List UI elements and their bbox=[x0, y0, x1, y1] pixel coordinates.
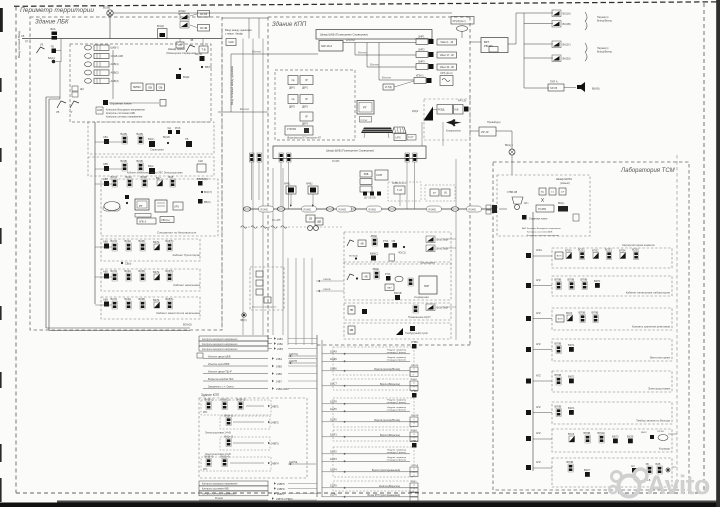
svg-text:RS485: RS485 bbox=[369, 208, 377, 211]
svg-text:IP: IP bbox=[305, 115, 308, 119]
svg-text:НВ: НВ bbox=[350, 310, 354, 312]
svg-text:ВП9В: ВП9В bbox=[584, 431, 591, 435]
svg-text:ВП9В: ВП9В bbox=[555, 373, 562, 377]
svg-text:1ШС7: 1ШС7 bbox=[330, 383, 337, 386]
svg-text:АВ7: АВ7 bbox=[103, 177, 108, 181]
svg-text:Контроль выходного напряжения: Контроль выходного напряжения bbox=[202, 339, 238, 341]
svg-text:ВМ07: ВМ07 bbox=[641, 432, 647, 434]
svg-text:Кабинет начальника лаборатории: Кабинет начальника лаборатории bbox=[626, 291, 671, 295]
svg-text:ВОЛ: ВОЛ bbox=[557, 256, 562, 258]
svg-text:УПВ2: УПВ2 bbox=[411, 439, 418, 443]
svg-text:РПА: РПА bbox=[383, 239, 389, 243]
svg-text:ШУ GB GB: ШУ GB GB bbox=[364, 198, 376, 200]
svg-text:1ШЛ9: 1ШЛ9 bbox=[330, 401, 337, 404]
svg-text:Ethernet: Ethernet bbox=[358, 52, 367, 55]
svg-text:ВК(1В): ВК(1В) bbox=[563, 22, 571, 26]
svg-text:1ШЛ3: 1ШЛ3 bbox=[330, 458, 337, 461]
svg-text:КП1: КП1 bbox=[203, 468, 208, 471]
svg-text:ЗИР2: ЗИР2 bbox=[418, 48, 425, 52]
svg-text:МВ: МВ bbox=[350, 330, 354, 332]
svg-text:Наружн. периметр: Наружн. периметр bbox=[387, 357, 406, 359]
svg-text:ВК7Е: ВК7Е bbox=[153, 240, 160, 244]
svg-text:ВК(1А): ВК(1А) bbox=[563, 12, 571, 16]
svg-text:УПВ9: УПВ9 bbox=[411, 340, 418, 344]
svg-text:24В5: 24В5 bbox=[276, 366, 282, 369]
svg-text:АКВ(2): АКВ(2) bbox=[111, 71, 119, 75]
svg-text:ВИЗО: ВИЗО bbox=[133, 85, 140, 89]
svg-text:Ethernet: Ethernet bbox=[370, 64, 379, 67]
svg-text:24В3: 24В3 bbox=[277, 348, 283, 351]
svg-text:И(К)2: И(К)2 bbox=[412, 110, 419, 113]
svg-text:СОВ7: СОВ7 bbox=[411, 379, 418, 381]
svg-text:ТВ: ТВ bbox=[51, 45, 55, 49]
svg-text:ЗВ(ТВ: ЗВ(ТВ bbox=[195, 53, 202, 56]
svg-text:Ввод между зданиями: Ввод между зданиями bbox=[225, 28, 252, 32]
svg-text:24ВП3: 24ВП3 bbox=[271, 443, 279, 446]
svg-text:Взлом КПП (приоткрываемый): Взлом КПП (приоткрываемый) bbox=[367, 494, 400, 497]
svg-text:площадь (2 фланг): площадь (2 фланг) bbox=[387, 359, 407, 362]
svg-text:ВП9Ж: ВП9Ж bbox=[598, 431, 606, 435]
svg-text:1ШЛ6: 1ШЛ6 bbox=[330, 494, 337, 497]
svg-text:РИО28: РИО28 bbox=[411, 365, 419, 367]
svg-text:ВК(б7)щУ: ВК(б7)щУ bbox=[437, 238, 449, 242]
svg-text:РОЗ: РОЗ bbox=[175, 126, 181, 130]
svg-text:СВ: СВ bbox=[309, 218, 313, 221]
svg-text:Помещение ЦСП: Помещение ЦСП bbox=[408, 315, 430, 319]
svg-text:ДВР3: ДВР3 bbox=[302, 124, 309, 126]
svg-text:Ethernet: Ethernet bbox=[252, 51, 261, 54]
svg-text:УЕ: УЕ bbox=[40, 44, 44, 47]
svg-text:АП2: АП2 bbox=[536, 432, 541, 435]
svg-text:УПВ8: УПВ8 bbox=[411, 389, 418, 393]
svg-text:ВК3Б: ВК3Б bbox=[139, 239, 146, 243]
svg-text:ВК(б7)щУ: ВК(б7)щУ bbox=[437, 306, 449, 310]
svg-text:(Громкая) переговорное: (Громкая) переговорное bbox=[252, 307, 277, 309]
svg-text:24ВП1: 24ВП1 bbox=[271, 406, 279, 409]
svg-text:Охранная линия: Охранная линия bbox=[110, 102, 132, 106]
svg-text:АРМ1: АРМ1 bbox=[284, 183, 291, 186]
svg-text:ВК(1В: ВК(1В bbox=[163, 136, 170, 139]
svg-text:24ВП5: 24ВП5 bbox=[277, 483, 285, 486]
svg-text:Серверная: Серверная bbox=[150, 148, 164, 152]
svg-text:В2В: В2В bbox=[656, 462, 661, 466]
svg-text:ТР: ТР bbox=[25, 41, 28, 44]
svg-text:АВ5: АВ5 bbox=[103, 298, 108, 302]
svg-text:ПУТ: ПУТ bbox=[672, 467, 677, 469]
svg-text:Вм: Вм bbox=[541, 192, 544, 194]
svg-text:КП1: КП1 bbox=[203, 411, 208, 414]
svg-text:Video 1...16: Video 1...16 bbox=[440, 41, 453, 44]
svg-text:Ворота (Вскрытие): Ворота (Вскрытие) bbox=[380, 384, 400, 386]
svg-text:24В6: 24В6 bbox=[276, 373, 282, 376]
svg-text:№: № bbox=[292, 79, 295, 82]
svg-text:площадь (1 фланг): площадь (1 фланг) bbox=[387, 401, 407, 404]
svg-text:Провайдер: Провайдер bbox=[487, 120, 501, 124]
svg-text:IP: IP bbox=[305, 78, 308, 82]
svg-text:ДВР1: ДВР1 bbox=[289, 88, 296, 90]
svg-text:Контроль состояния АКБ: Контроль состояния АКБ bbox=[527, 231, 553, 234]
svg-text:СВ(л): СВ(л) bbox=[125, 263, 132, 266]
svg-text:Лаборатория ТСМ: Лаборатория ТСМ bbox=[620, 168, 675, 174]
svg-text:АКВ(3): АКВ(3) bbox=[111, 79, 119, 83]
svg-text:ВКЛ1: ВКЛ1 bbox=[111, 175, 118, 179]
svg-text:АП2: АП2 bbox=[536, 312, 541, 315]
svg-text:24ВП7: 24ВП7 bbox=[277, 493, 285, 496]
svg-text:ЩВ: ЩВ bbox=[317, 221, 321, 224]
svg-text:АВ5: АВ5 bbox=[103, 240, 108, 244]
svg-text:Проходная: Проходная bbox=[420, 261, 435, 265]
svg-text:Коридор: Коридор bbox=[659, 447, 670, 451]
svg-text:ЧВ: ЧВ bbox=[190, 39, 194, 42]
svg-text:ВК(В-4): ВК(В-4) bbox=[221, 455, 230, 459]
svg-text:ЧО(С1): ЧО(С1) bbox=[398, 253, 406, 255]
svg-text:Электрощитовая 1/4+В: Электрощитовая 1/4+В bbox=[205, 432, 231, 435]
svg-text:ВК(л-2): ВК(л-2) bbox=[225, 435, 234, 439]
svg-text:ВКЛ1: ВКЛ1 bbox=[594, 279, 601, 283]
svg-text:Avito: Avito bbox=[647, 470, 710, 500]
svg-text:ВКЛ3: ВКЛ3 bbox=[612, 435, 619, 439]
svg-text:Кабинет заместителя начальника: Кабинет заместителя начальника bbox=[156, 311, 200, 315]
svg-text:ВП32: ВП32 bbox=[592, 249, 599, 253]
svg-text:ВК7Е: ВК7Е bbox=[153, 298, 160, 302]
svg-text:с накоп. базфр: с накоп. базфр bbox=[225, 32, 243, 36]
svg-text:ВП9В: ВП9В bbox=[592, 311, 599, 315]
svg-text:1ШЛ2: 1ШЛ2 bbox=[330, 451, 337, 454]
svg-text:Здание ЛБК: Здание ЛБК bbox=[35, 20, 69, 26]
svg-text:СТВВ-ОВ: СТВВ-ОВ bbox=[507, 192, 518, 194]
svg-text:АВ: АВ bbox=[360, 242, 364, 245]
svg-text:ШКВ-3: ШКВ-3 bbox=[111, 46, 119, 50]
svg-text:ВП9В: ВП9В bbox=[581, 278, 588, 282]
svg-text:ВКЛ4: ВКЛ4 bbox=[111, 239, 118, 243]
svg-text:АВ: АВ bbox=[364, 275, 368, 278]
svg-text:1ШЛ1: 1ШЛ1 bbox=[330, 434, 337, 437]
svg-text:ВК2В: ВК2В bbox=[627, 435, 634, 439]
svg-text:ЗИР3: ЗИР3 bbox=[418, 60, 425, 64]
svg-text:ВК8(5): ВК8(5) bbox=[166, 297, 174, 301]
svg-text:Изъятие двери ТШ-4*: Изъятие двери ТШ-4* bbox=[208, 371, 232, 374]
svg-text:ВП9В: ВП9В bbox=[568, 278, 575, 282]
svg-text:Контроль выходного напряжения: Контроль выходного напряжения bbox=[202, 349, 238, 351]
svg-text:ВК8(5): ВК8(5) bbox=[166, 269, 174, 273]
svg-text:АП2: АП2 bbox=[536, 279, 541, 282]
svg-text:С-07: С-07 bbox=[408, 136, 414, 139]
svg-text:24ВП6: 24ВП6 bbox=[277, 488, 285, 491]
svg-text:(У): (У) bbox=[444, 193, 447, 195]
svg-text:Контроль сетевого напряжения: Контроль сетевого напряжения bbox=[202, 494, 236, 496]
svg-text:Кабинет начальника: Кабинет начальника bbox=[173, 283, 200, 287]
svg-text:Специалист по безопасности: Специалист по безопасности bbox=[157, 231, 197, 235]
svg-text:24ВП2: 24ВП2 bbox=[271, 422, 279, 425]
svg-text:ВУ23: ВУ23 bbox=[568, 432, 575, 436]
svg-text:ЧЦ: ЧЦ bbox=[167, 126, 171, 130]
svg-text:ВК(к).1: ВК(к).1 bbox=[505, 144, 514, 147]
svg-text:Тамбур запасного Выхода: Тамбур запасного Выхода bbox=[636, 419, 670, 423]
svg-text:РВ-МС: РВ-МС bbox=[484, 44, 493, 48]
svg-text:ДВР2: ДВР2 bbox=[302, 107, 309, 109]
svg-text:Вканд/Вканд: Вканд/Вканд bbox=[597, 20, 612, 23]
svg-text:ВК(б7)щУ: ВК(б7)щУ bbox=[437, 247, 449, 251]
svg-text:Вскрытие коробки ПКС: Вскрытие коробки ПКС bbox=[208, 378, 234, 381]
svg-text:ВМ(1): ВМ(1) bbox=[558, 203, 564, 205]
svg-text:АСВ: АСВ bbox=[97, 109, 102, 112]
svg-text:Вканд/Вканд: Вканд/Вканд bbox=[597, 51, 612, 54]
svg-text:Video 33...48: Video 33...48 bbox=[440, 66, 455, 69]
svg-text:Ethernet: Ethernet bbox=[382, 77, 391, 80]
svg-text:КПМ 1: КПМ 1 bbox=[416, 74, 424, 78]
svg-text:ВК3Н: ВК3Н bbox=[125, 239, 132, 243]
svg-text:ЩУ: ЩУ bbox=[80, 88, 84, 91]
svg-text:ПУЛЬТ: ПУЛЬТ bbox=[361, 120, 369, 122]
svg-text:Периметр территории: Периметр территории bbox=[20, 7, 94, 14]
svg-text:АВ1 Контроль Выходного напряже: АВ1 Контроль Выходного напряжения bbox=[522, 227, 561, 230]
svg-text:1ШВ7В: 1ШВ7В bbox=[323, 289, 331, 291]
svg-text:Ворота (приоткр/Взлом): Ворота (приоткр/Взлом) bbox=[374, 420, 400, 422]
svg-text:СР-4В: СР-4В bbox=[200, 27, 208, 30]
svg-text:1ШЛ0: 1ШЛ0 bbox=[330, 408, 337, 411]
svg-text:ВО(к): ВО(к) bbox=[103, 6, 110, 10]
svg-text:Кабинет начальника смены ЛБТ,: Кабинет начальника смены ЛБТ, Электрощит… bbox=[127, 172, 183, 175]
svg-text:И-Т(К): И-Т(К) bbox=[385, 87, 392, 89]
svg-text:ВКЛ7: ВКЛ7 bbox=[584, 468, 591, 472]
svg-text:Шкаф ШК02: Шкаф ШК02 bbox=[168, 47, 185, 51]
svg-text:Вентиляторная: Вентиляторная bbox=[650, 356, 670, 360]
svg-text:ВК3Н: ВК3Н bbox=[125, 269, 132, 273]
svg-text:Шкаф ШКВ (Помещение Серверная): Шкаф ШКВ (Помещение Серверная) bbox=[326, 149, 374, 153]
svg-text:ЗВ(Е): ЗВ(Е) bbox=[373, 267, 380, 271]
svg-text:IP: IP bbox=[305, 97, 308, 101]
svg-text:УВ: УВ bbox=[56, 111, 60, 114]
svg-text:В2А: В2А bbox=[51, 27, 56, 31]
svg-text:ВО(С7): ВО(С7) bbox=[204, 191, 212, 194]
svg-text:ВК(1): ВК(1) bbox=[148, 137, 155, 141]
svg-text:площадь (1 фланг): площадь (1 фланг) bbox=[387, 451, 407, 454]
svg-text:ВК(В): ВК(В) bbox=[137, 159, 144, 163]
svg-text:24В1: 24В1 bbox=[277, 338, 283, 341]
svg-text:Video 17...32: Video 17...32 bbox=[440, 54, 455, 57]
svg-text:Т-об: Т-об bbox=[397, 189, 403, 192]
svg-text:Контроль сетевого напряжения: Контроль сетевого напряжения bbox=[106, 116, 143, 119]
svg-text:Здание КПП: Здание КПП bbox=[272, 22, 307, 28]
svg-text:1ШЛ0: 1ШЛ0 bbox=[330, 419, 337, 422]
svg-text:СР-1В: СР-1В bbox=[200, 13, 208, 16]
svg-text:ЗИР1: ЗИР1 bbox=[418, 35, 425, 39]
svg-text:ВК3Н: ВК3Н bbox=[125, 297, 132, 301]
svg-text:Контроль выходного напряжения: Контроль выходного напряжения bbox=[202, 484, 238, 486]
svg-text:СвЯ: СвЯ bbox=[198, 160, 203, 163]
svg-text:Загружено с т.ч. Смита: Загружено с т.ч. Смита bbox=[208, 386, 234, 389]
svg-text:ВК(В): ВК(В) bbox=[121, 132, 128, 136]
svg-text:АВ5: АВ5 bbox=[103, 162, 108, 166]
svg-text:РС-485: РС-485 bbox=[272, 219, 281, 222]
svg-text:/У: /У bbox=[70, 111, 73, 114]
svg-text:3В: 3В bbox=[646, 462, 649, 466]
svg-text:ТИП А: ТИП А bbox=[550, 81, 558, 84]
svg-text:РТ: РТ bbox=[139, 204, 143, 208]
svg-text:Аккумуляторная комната: Аккумуляторная комната bbox=[622, 243, 655, 247]
svg-text:1ША9: 1ША9 bbox=[330, 351, 337, 354]
svg-text:ВКЛ1: ВКЛ1 bbox=[568, 406, 575, 410]
svg-text:Электрощитовая: Электрощитовая bbox=[648, 387, 670, 391]
svg-text:ВК3Б: ВК3Б bbox=[139, 297, 146, 301]
svg-text:Изъятие щита ВРФ: Изъятие щита ВРФ bbox=[208, 363, 230, 366]
svg-text:ВОЛ: ВОЛ bbox=[558, 319, 563, 321]
svg-text:ВА(1)т: ВА(1)т bbox=[48, 57, 56, 60]
svg-text:ВК(В): ВК(В) bbox=[121, 159, 128, 163]
svg-text:ВК8(5): ВК8(5) bbox=[166, 239, 174, 243]
svg-text:ДВР2: ДВР2 bbox=[289, 107, 296, 109]
svg-text:Наружн. периметр: Наружн. периметр bbox=[387, 457, 406, 459]
svg-text:ВОДК: ВОДК bbox=[183, 76, 190, 79]
svg-text:СВК(1+): СВК(1+) bbox=[161, 219, 170, 222]
svg-text:ОР-4В: ОР-4В bbox=[657, 431, 664, 433]
svg-text:СвЯ: СвЯ bbox=[229, 41, 234, 44]
svg-text:ВК3Б: ВК3Б bbox=[139, 269, 146, 273]
svg-text:РС485: РС485 bbox=[538, 207, 546, 211]
svg-text:ВК(3З): ВК(3З) bbox=[563, 57, 571, 61]
svg-text:(Видео)выход В Помещение КП: (Видео)выход В Помещение КП bbox=[287, 138, 321, 140]
svg-text:24В2: 24В2 bbox=[277, 343, 283, 346]
svg-text:АП2: АП2 bbox=[536, 375, 541, 378]
svg-text:ВУ23: ВУ23 bbox=[566, 311, 573, 315]
svg-text:SP-65: SP-65 bbox=[550, 86, 558, 90]
svg-text:№: № bbox=[292, 98, 295, 101]
svg-text:ЧВ(С): ЧВ(С) bbox=[240, 319, 247, 322]
svg-text:Калитка (Вскрытие): Калитка (Вскрытие) bbox=[379, 486, 400, 488]
svg-text:UPS (2шт): UPS (2шт) bbox=[440, 71, 453, 75]
svg-text:Ворота (приоткрываемый): Ворота (приоткрываемый) bbox=[372, 469, 400, 472]
svg-text:UPS: UPS bbox=[396, 137, 401, 140]
svg-text:ВОЛ(1)А: ВОЛ(1)А bbox=[349, 255, 358, 258]
svg-text:Ethernet: Ethernet bbox=[240, 108, 249, 111]
svg-text:АП2: АП2 bbox=[536, 461, 541, 464]
svg-text:ОР(об)(2шт): ОР(об)(2шт) bbox=[453, 21, 466, 23]
svg-text:RS485: RS485 bbox=[469, 208, 477, 211]
svg-text:UPS: UPS bbox=[174, 206, 179, 209]
svg-text:АВ1: АВ1 bbox=[103, 135, 108, 139]
svg-text:ВКЛ4: ВКЛ4 bbox=[111, 269, 118, 273]
svg-text:АКВ(1): АКВ(1) bbox=[111, 62, 119, 66]
svg-text:СКС1Д: СКС1Д bbox=[411, 465, 419, 467]
svg-text:ВКЛ1: ВКЛ1 bbox=[568, 343, 575, 347]
svg-text:24ВП4: 24ВП4 bbox=[271, 463, 279, 466]
svg-text:ЮР: ЮР bbox=[424, 284, 429, 288]
svg-text:ВК(В): ВК(В) bbox=[137, 132, 144, 136]
svg-text:ВК(2: ВК(2 bbox=[148, 164, 154, 168]
svg-text:ВОЗ5: ВОЗ5 bbox=[632, 248, 639, 252]
svg-text:24В7: 24В7 bbox=[276, 381, 282, 384]
svg-text:РОВД: РОВД bbox=[438, 110, 445, 112]
svg-text:СБ: СБ bbox=[21, 35, 25, 38]
svg-text:ВП9В: ВП9В bbox=[579, 311, 586, 315]
svg-text:РС485: РС485 bbox=[332, 160, 340, 163]
svg-text:СКАВ-12В: СКАВ-12В bbox=[111, 54, 124, 58]
svg-text:ВВ(С): ВВ(С) bbox=[204, 201, 211, 204]
svg-text:RS485: RS485 bbox=[339, 208, 347, 211]
svg-text:(Новый): (Новый) bbox=[560, 181, 570, 185]
svg-text:24В4: 24В4 bbox=[276, 358, 282, 361]
svg-text:GB: GB bbox=[148, 85, 152, 89]
svg-text:ВБ7В(5)У: ВБ7В(5)У bbox=[197, 177, 209, 181]
svg-text:СКВВ-19 шт.1: СКВВ-19 шт.1 bbox=[392, 183, 407, 185]
svg-text:ВОА02: ВОА02 bbox=[183, 323, 192, 327]
svg-text:АВ5: АВ5 bbox=[103, 270, 108, 274]
svg-text:Наружн. периметр: Наружн. периметр bbox=[387, 407, 406, 409]
svg-text:ВК3А: ВК3А bbox=[126, 175, 133, 179]
svg-text:СОВ2: СОВ2 bbox=[411, 430, 418, 432]
svg-text:ВО2Д: ВО2Д bbox=[157, 25, 164, 28]
svg-text:ВК(В-3): ВК(В-3) bbox=[237, 398, 246, 402]
svg-text:Тамбур(ный) пункт: Тамбур(ный) пункт bbox=[405, 331, 429, 335]
svg-text:ВОЗ3: ВОЗ3 bbox=[605, 248, 612, 252]
svg-text:ВК(В-2): ВК(В-2) bbox=[221, 398, 230, 402]
svg-text:АПК-3: АПК-3 bbox=[139, 221, 147, 224]
svg-text:Ворота (Вскрытие): Ворота (Вскрытие) bbox=[380, 435, 400, 437]
svg-text:ВК(б5): ВК(б5) bbox=[592, 88, 600, 91]
svg-text:GB: GB bbox=[159, 85, 163, 89]
svg-text:Наружн. периметр: Наружн. периметр bbox=[387, 349, 406, 351]
svg-text:Ethernet: Ethernet bbox=[346, 39, 355, 42]
svg-text:площадь (1 фланг): площадь (1 фланг) bbox=[387, 351, 407, 354]
svg-text:Шкаф ШКВ (Помещение Серверная): Шкаф ШКВ (Помещение Серверная) bbox=[320, 33, 368, 37]
svg-text:ВК3В: ВК3В bbox=[141, 175, 148, 179]
svg-text:ЗВ(Е): ЗВ(Е) bbox=[371, 234, 378, 238]
svg-text:(Помещение Серверная): (Помещение Серверная) bbox=[166, 51, 196, 55]
svg-text:24ВП8-24ПВ10: 24ВП8-24ПВ10 bbox=[276, 498, 293, 501]
svg-text:Кондиционер: Кондиционер bbox=[446, 130, 461, 133]
svg-text:Контроль сетевого напряжения: Контроль сетевого напряжения bbox=[527, 235, 560, 237]
svg-text:ВП9В: ВП9В bbox=[555, 342, 562, 346]
svg-text:ИО11: ИО11 bbox=[411, 481, 417, 483]
svg-text:АРМ2: АРМ2 bbox=[306, 183, 313, 186]
svg-text:АП2: АП2 bbox=[536, 343, 541, 346]
svg-text:RS485: RS485 bbox=[304, 208, 312, 211]
svg-text:Наружн. периметр: Наружн. периметр bbox=[387, 399, 406, 401]
svg-text:RS485: RS485 bbox=[429, 208, 437, 211]
svg-text:ВКЛ(В: ВКЛ(В bbox=[394, 291, 402, 295]
svg-text:Контроль выходного напряжения: Контроль выходного напряжения bbox=[202, 344, 238, 346]
svg-text:РАВ: РАВ bbox=[364, 173, 369, 176]
svg-text:1ШД5: 1ШД5 bbox=[330, 358, 337, 361]
svg-text:ЖЗ(Е)т: ЖЗ(Е)т bbox=[178, 10, 187, 13]
svg-text:ВК7: ВК7 bbox=[156, 176, 161, 180]
svg-text:ВП34: ВП34 bbox=[619, 249, 626, 253]
svg-text:Серверная: Серверная bbox=[414, 295, 429, 299]
svg-text:Охранная линия: Охранная линия bbox=[529, 218, 548, 221]
svg-text:RS485: RS485 bbox=[261, 208, 269, 211]
svg-text:1.Н: 1.Н bbox=[561, 192, 565, 194]
svg-text:ВКЛ1: ВКЛ1 bbox=[568, 375, 575, 379]
svg-text:Ввод лотковый между зданиями: Ввод лотковый между зданиями bbox=[230, 66, 234, 105]
svg-text:SW-19-4: SW-19-4 bbox=[321, 44, 332, 48]
svg-text:АО: АО bbox=[631, 464, 635, 468]
svg-text:ТВ: ТВ bbox=[185, 137, 189, 141]
svg-text:Ворота (приоткр/Взлом): Ворота (приоткр/Взлом) bbox=[374, 369, 400, 371]
svg-text:Т-В: Т-В bbox=[201, 49, 205, 52]
svg-text:ИР-1Р: ИР-1Р bbox=[481, 130, 489, 134]
svg-text:ВП9В: ВП9В bbox=[555, 405, 562, 409]
svg-text:Наружн. периметр: Наружн. периметр bbox=[387, 449, 406, 451]
svg-text:АПв1: АПв1 bbox=[536, 249, 543, 252]
svg-text:Контроль состояния АКБ: Контроль состояния АКБ bbox=[202, 488, 229, 491]
svg-text:ВК(В-1): ВК(В-1) bbox=[205, 398, 214, 402]
svg-text:РИО2В: РИО2В bbox=[411, 415, 419, 417]
svg-text:РПА: РПА bbox=[385, 272, 391, 276]
svg-text:1ШЛ4: 1ШЛ4 bbox=[330, 469, 337, 472]
svg-text:ВК(л-1): ВК(л-1) bbox=[225, 414, 234, 418]
svg-text:ВП9В: ВП9В bbox=[567, 460, 574, 464]
svg-text:ВОЗ1: ВОЗ1 bbox=[578, 248, 585, 252]
